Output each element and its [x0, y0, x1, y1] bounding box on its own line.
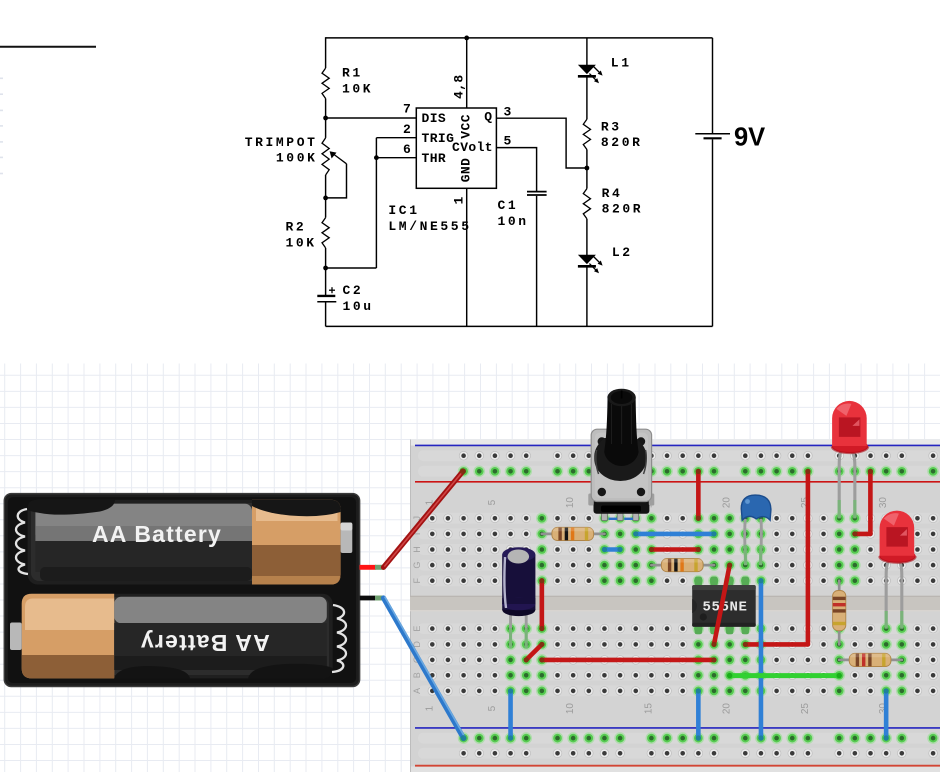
wire L2 to ground rail: [586, 266, 588, 326]
wire trig to rail: [326, 267, 376, 269]
node wiper junction: [323, 196, 328, 201]
svg-text:10u: 10u: [343, 299, 374, 314]
spring contact bottom right: [332, 605, 346, 672]
wire pin7 DIS: [326, 117, 417, 119]
svg-text:2: 2: [403, 122, 413, 137]
svg-text:F: F: [412, 577, 422, 583]
capacitor C2 10u: [317, 295, 335, 297]
LED L2: [879, 511, 915, 629]
svg-text:5: 5: [504, 134, 514, 149]
resistor R3 820R vertical: [833, 581, 846, 645]
wire pin4,8 VCC: [466, 38, 468, 108]
svg-text:CVolt: CVolt: [452, 140, 493, 155]
svg-text:10n: 10n: [498, 214, 529, 229]
ceramic capacitor C1: [741, 495, 771, 565]
node Q junction: [585, 166, 590, 171]
svg-text:100K: 100K: [276, 151, 318, 166]
node VCC junction: [464, 36, 469, 41]
breadboard column number labels: [424, 497, 889, 715]
wire pin3 Q output: [496, 118, 587, 168]
svg-text:7: 7: [403, 102, 413, 117]
svg-text:LM/NE555: LM/NE555: [388, 219, 471, 234]
svg-text:R2: R2: [286, 219, 307, 234]
LED L2: [578, 255, 603, 273]
electrolytic capacitor C2: [502, 547, 535, 648]
svg-text:L1: L1: [611, 56, 632, 71]
ruler tick marks left edge: [0, 78, 3, 173]
svg-text:C2: C2: [343, 283, 364, 298]
wire bottom ground rail: [326, 325, 713, 327]
svg-text:R1: R1: [342, 65, 363, 80]
svg-text:10K: 10K: [342, 81, 373, 96]
resistor R1: [322, 68, 329, 98]
svg-text:R4: R4: [602, 186, 623, 201]
battery holder AA pack: [4, 494, 359, 687]
battery B1 9V: [695, 134, 730, 139]
svg-text:AA Battery: AA Battery: [92, 521, 222, 547]
wire R1 to trimpot: [325, 99, 327, 138]
op-amp U1 IC1 LM/NE555 box: [416, 108, 496, 188]
wire trimpot wiper to rail: [326, 164, 347, 198]
svg-text:THR: THR: [422, 151, 447, 166]
wire blue A30 to ground rail: [883, 688, 888, 741]
svg-text:Q: Q: [484, 109, 492, 124]
svg-text:IC1: IC1: [388, 203, 419, 218]
wire C1 to ground rail: [536, 196, 538, 327]
svg-text:B: B: [412, 672, 422, 678]
wire R4 to L2: [586, 219, 588, 255]
svg-text:10K: 10K: [286, 235, 317, 250]
node pin7 junction: [323, 116, 328, 121]
spring contact top left: [16, 509, 28, 574]
wire blue A6 to ground rail: [508, 688, 513, 741]
svg-text:555NE: 555NE: [703, 600, 748, 616]
svg-text:DIS: DIS: [422, 111, 447, 126]
svg-text:6: 6: [403, 142, 413, 157]
resistor R3 820R: [583, 119, 590, 149]
wire red F8 to E8: [539, 578, 544, 631]
wire red rail to I28: [852, 469, 873, 537]
resistor R2 10K: [651, 559, 714, 572]
svg-text:15: 15: [643, 703, 654, 715]
svg-text:R3: R3: [601, 119, 622, 134]
wire L1 to R3: [586, 76, 588, 119]
wire pin2 TRIG: [376, 137, 416, 139]
AA battery top: [28, 500, 353, 585]
trimpot RV1 100K: [322, 138, 329, 175]
svg-text:TRIMPOT: TRIMPOT: [245, 135, 318, 150]
wire red D8 to C7: [524, 642, 545, 663]
LED L1: [832, 401, 868, 518]
svg-text:AA Battery: AA Battery: [140, 630, 270, 656]
svg-text:820R: 820R: [602, 202, 644, 217]
svg-text:C1: C1: [498, 198, 519, 213]
svg-text:GND: GND: [458, 158, 473, 183]
breadboard top blue rail line: [415, 444, 940, 446]
resistor R2: [322, 218, 329, 248]
wire C2 to ground rail: [325, 302, 327, 326]
wire rail to L1: [586, 38, 588, 65]
AA battery bottom (flipped): [10, 594, 333, 679]
trimpot wiper arrow: [332, 153, 347, 164]
wire rail to battery +: [712, 38, 714, 133]
capacitor C1 10n: [527, 191, 547, 193]
svg-text:10: 10: [565, 703, 576, 715]
svg-text:20: 20: [722, 703, 733, 715]
breadboard base: [410, 440, 940, 772]
resistor R1 10K: [542, 527, 605, 540]
wire trimpot to R2: [325, 175, 327, 218]
breadboard hole grid: [428, 451, 938, 757]
svg-text:G: G: [412, 562, 422, 569]
wire pin5 CVolt: [496, 148, 536, 191]
node pin6 junction: [374, 155, 379, 160]
svg-text:A: A: [412, 688, 422, 694]
svg-text:1: 1: [451, 196, 466, 204]
wire battery positive lead: [360, 468, 466, 567]
wire blue A18 to ground rail: [696, 688, 701, 741]
svg-text:E: E: [412, 626, 422, 632]
wire blue F22 to ground rail: [758, 578, 763, 741]
svg-text:4,8: 4,8: [451, 74, 466, 99]
svg-text:820R: 820R: [601, 135, 643, 150]
wire red H15 to H18: [649, 547, 701, 552]
wire battery - to ground rail: [712, 139, 714, 326]
breadboard bottom red rail line: [415, 765, 940, 767]
wire red G20 to D19 over chip: [711, 562, 732, 647]
svg-text:25: 25: [800, 703, 811, 715]
svg-text:5: 5: [487, 705, 498, 711]
potentiometer RV1: [588, 389, 654, 521]
wire red rail to J18: [696, 469, 701, 521]
svg-text:VCC: VCC: [458, 114, 473, 139]
svg-text:10: 10: [565, 497, 576, 509]
svg-text:1: 1: [424, 705, 435, 711]
top-left divider line: [0, 46, 96, 48]
svg-text:30: 30: [878, 497, 889, 509]
wire R2 to C2: [325, 248, 327, 295]
svg-text:L2: L2: [612, 245, 633, 260]
wire trig vertical: [375, 138, 377, 268]
svg-text:TRIG: TRIG: [422, 131, 455, 146]
canvas grid background: [0, 364, 940, 772]
ratsnest dashed wire at potentiometer: [609, 518, 618, 520]
wire pin1 GND: [466, 188, 468, 326]
wire top supply rail: [326, 37, 713, 39]
wire blue H12 to H13: [602, 547, 623, 552]
breadboard row letter labels: [412, 516, 422, 694]
wire battery negative lead: [360, 597, 467, 741]
breadboard center channel: [410, 596, 940, 611]
node trig junction: [323, 266, 328, 271]
wire red C8 to C19: [539, 657, 717, 662]
wire green B20 to B27: [727, 673, 842, 678]
wire pin6 THR: [376, 157, 416, 159]
IC chip 555NE: [692, 577, 756, 635]
wire blue I14 to I19: [633, 531, 717, 536]
resistor R4 820R: [839, 653, 902, 666]
svg-text:9V: 9V: [734, 124, 765, 152]
wire R3 to junction: [586, 150, 588, 189]
resistor R4 820R: [583, 189, 590, 219]
svg-text:5: 5: [487, 499, 498, 505]
svg-text:3: 3: [504, 104, 514, 119]
LED L1: [578, 65, 603, 83]
svg-text:H: H: [412, 546, 422, 553]
svg-text:20: 20: [722, 497, 733, 509]
wire left rail upper: [325, 37, 327, 68]
wire red rail to D21: [743, 469, 811, 648]
breadboard top red rail line: [415, 481, 940, 483]
breadboard bottom blue rail line: [415, 727, 940, 729]
